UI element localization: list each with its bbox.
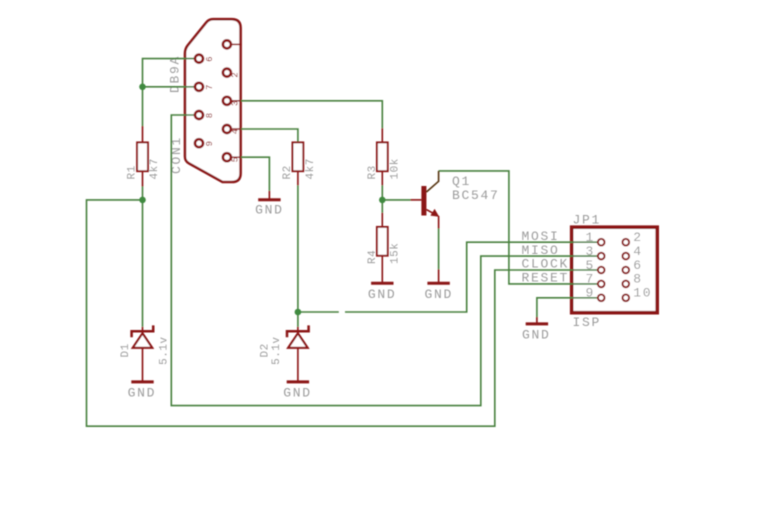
svg-text:4k7: 4k7 xyxy=(305,158,317,179)
wire R2 bottom to D2 node xyxy=(297,185,299,326)
connector JP1 ISP header box xyxy=(572,227,658,313)
svg-text:7: 7 xyxy=(585,272,595,287)
JP1 pin 2 xyxy=(623,230,643,246)
svg-text:2: 2 xyxy=(230,72,240,77)
wire DB9 pin4 to R2 top xyxy=(241,129,298,142)
svg-text:GND: GND xyxy=(368,287,397,302)
svg-text:8: 8 xyxy=(633,272,643,287)
JP1 pin 9 xyxy=(585,286,604,302)
svg-text:GND: GND xyxy=(424,287,453,302)
svg-text:D2: D2 xyxy=(260,343,272,357)
DB9 pin 7 xyxy=(195,83,215,91)
JP1 pin 1 xyxy=(585,230,604,246)
DB9 pin 6 xyxy=(195,55,215,63)
JP1 pin 4 xyxy=(623,244,643,260)
svg-text:JP1: JP1 xyxy=(573,213,602,228)
wire net MISO: from DB9 pin8 down and around to JP1 pin3 xyxy=(171,115,597,406)
JP1 pin 10 xyxy=(623,286,653,302)
svg-text:4k7: 4k7 xyxy=(149,158,161,179)
svg-text:10k: 10k xyxy=(390,158,402,179)
junction node at R2 / D2 / MOSI xyxy=(295,309,302,316)
svg-text:6: 6 xyxy=(205,56,215,61)
junction node at DB9 pin7 / R1 xyxy=(139,84,146,91)
svg-text:CLOCK: CLOCK xyxy=(522,257,570,272)
svg-text:10: 10 xyxy=(633,286,652,301)
svg-text:GND: GND xyxy=(283,385,312,400)
JP1 pin 3 xyxy=(585,244,604,260)
svg-text:15k: 15k xyxy=(390,243,402,264)
transistor Q1 BC547 xyxy=(411,171,500,277)
svg-text:5.1v: 5.1v xyxy=(271,336,283,364)
ground symbol under JP1 pin9 xyxy=(522,317,551,343)
wire net MOSI: from R2/D2 node to JP1 pin1 xyxy=(298,242,598,312)
svg-text:5: 5 xyxy=(585,258,595,273)
svg-text:GND: GND xyxy=(522,328,551,343)
ground symbol under Q1 emitter xyxy=(424,277,453,302)
svg-text:D1: D1 xyxy=(120,343,132,357)
wire DB9 pin7 to R1 top xyxy=(143,87,195,126)
svg-text:9: 9 xyxy=(585,286,595,301)
svg-text:3: 3 xyxy=(230,101,240,106)
resistor R2 xyxy=(282,142,317,185)
JP1 pin 7 xyxy=(585,272,604,288)
junction node at R1 bottom / D1 / CLOCK xyxy=(139,197,146,204)
svg-text:5: 5 xyxy=(230,157,240,162)
svg-text:4: 4 xyxy=(230,129,240,134)
svg-text:8: 8 xyxy=(205,113,215,118)
svg-text:9: 9 xyxy=(205,141,215,146)
DB9 pin 3 xyxy=(223,97,241,106)
ground symbol under DB9 pin5 xyxy=(255,191,284,218)
wire net RESET: from Q1 collector to JP1 pin7 xyxy=(439,171,598,284)
wire net CLOCK: from R1/D1 node left and around bottom to JP1 pin5 xyxy=(87,200,598,426)
wire R3/R4 node to Q1 base xyxy=(382,199,410,201)
DB9 pin 8 xyxy=(195,111,215,119)
wire DB9 pin5 to ground xyxy=(241,157,270,191)
zener diode D2 5.1v xyxy=(260,325,309,375)
DB9 pin 1 xyxy=(223,40,241,48)
wire R1 bottom to D1 cathode xyxy=(142,187,144,327)
svg-text:R3: R3 xyxy=(367,165,379,179)
DB9 pin 9 xyxy=(195,139,215,147)
svg-text:4: 4 xyxy=(633,244,643,259)
svg-text:GND: GND xyxy=(128,385,157,400)
resistor R4 xyxy=(367,200,402,277)
svg-text:R4: R4 xyxy=(367,250,379,264)
svg-text:R1: R1 xyxy=(126,165,138,179)
JP1 pin 5 xyxy=(585,258,604,274)
svg-text:6: 6 xyxy=(633,258,643,273)
connector CON1 DB9 outline xyxy=(185,19,241,182)
JP1 pin 8 xyxy=(623,272,643,288)
wire DB9 pin6 to R1 node xyxy=(143,59,195,87)
wire JP1 pin9 to ground xyxy=(537,298,598,317)
svg-text:2: 2 xyxy=(633,230,643,245)
resistor R3 xyxy=(367,128,402,200)
zener diode D1 5.1v xyxy=(120,325,171,375)
ground symbol under D1 xyxy=(128,375,157,400)
JP1 pin 6 xyxy=(623,258,643,274)
svg-text:RESET: RESET xyxy=(522,271,570,286)
ground symbol under D2 xyxy=(283,375,312,400)
svg-text:7: 7 xyxy=(205,85,215,90)
junction node at R3 / R4 / Q1 base xyxy=(379,197,386,204)
resistor R1 xyxy=(126,126,161,187)
ground symbol under R4 xyxy=(368,277,397,302)
svg-text:ISP: ISP xyxy=(573,315,602,330)
svg-text:GND: GND xyxy=(255,202,284,217)
svg-text:1: 1 xyxy=(585,230,595,245)
svg-text:3: 3 xyxy=(585,244,595,259)
svg-text:BC547: BC547 xyxy=(452,188,500,203)
wire DB9 pin3 to R3 top xyxy=(241,101,382,128)
DB9 pin 4 xyxy=(223,125,241,134)
svg-text:R2: R2 xyxy=(282,165,294,179)
svg-text:MOSI: MOSI xyxy=(522,229,560,244)
svg-text:MISO: MISO xyxy=(522,243,560,258)
svg-text:5.1v: 5.1v xyxy=(159,336,171,364)
DB9 pin 2 xyxy=(223,69,240,78)
DB9 pin 5 xyxy=(223,153,241,162)
